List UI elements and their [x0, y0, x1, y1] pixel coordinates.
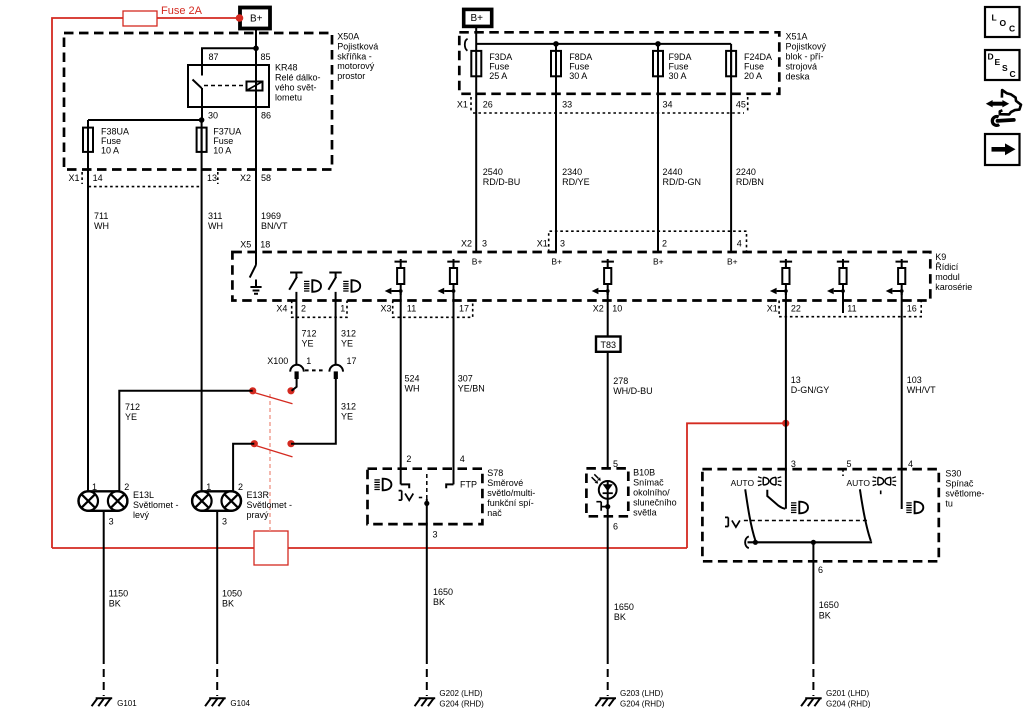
B10B internal contact	[596, 502, 607, 511]
svg-text:X2: X2	[240, 173, 251, 183]
svg-text:712: 712	[302, 329, 317, 339]
S30 common left hook	[745, 536, 749, 548]
svg-text:G204 (RHD): G204 (RHD)	[826, 700, 871, 709]
svg-text:2: 2	[124, 482, 129, 492]
svg-text:YE: YE	[125, 412, 137, 422]
svg-text:F24DA: F24DA	[744, 52, 772, 62]
svg-text:X50A: X50A	[337, 32, 359, 42]
svg-text:4: 4	[460, 454, 465, 464]
svg-text:16: 16	[907, 304, 917, 314]
label 1650 BK right	[819, 600, 839, 621]
wire 278 WH/D-BU K9 X2 pin 10 to B10B pin 5	[607, 292, 609, 469]
svg-text:B+: B+	[551, 257, 562, 267]
connector X3 row of K9	[381, 301, 473, 318]
red switch blade upper	[255, 393, 292, 404]
red box on highlight path	[254, 531, 288, 565]
node red junction on wire 13	[782, 420, 789, 427]
svg-text:strojová: strojová	[786, 62, 818, 72]
svg-text:karosérie: karosérie	[935, 282, 972, 292]
svg-text:skříňka -: skříňka -	[337, 52, 372, 62]
wire 712 YE horizontal to E13L pin 2	[119, 391, 252, 492]
svg-text:Snímač: Snímač	[633, 478, 664, 488]
svg-text:103: 103	[907, 375, 922, 385]
svg-text:BK: BK	[109, 599, 121, 609]
S30 right selector blade	[860, 489, 871, 541]
node junction bus F9DA	[655, 41, 661, 47]
svg-text:2: 2	[238, 482, 243, 492]
label F3DA Fuse 25 A	[489, 52, 512, 81]
svg-text:85: 85	[261, 52, 271, 62]
red switch blade lower	[257, 446, 293, 457]
svg-text:26: 26	[483, 100, 493, 110]
svg-text:světlo/multi-: světlo/multi-	[487, 488, 535, 498]
icon DESC box	[985, 50, 1020, 80]
svg-text:2340: 2340	[562, 167, 582, 177]
K9 sense resistor X2 pin 10	[592, 259, 614, 295]
K9 sense resistor X1 pin 22	[770, 259, 792, 295]
svg-text:X3: X3	[381, 304, 392, 314]
svg-text:AUTO: AUTO	[847, 478, 871, 488]
svg-text:O: O	[1000, 18, 1007, 28]
wire 524 WH K9 X3 pin 11 to S78 pin 2	[400, 292, 402, 485]
switch S78 dashed border	[368, 469, 483, 524]
label 524 WH	[405, 374, 420, 394]
svg-text:20 A: 20 A	[744, 71, 762, 81]
svg-text:světla: světla	[633, 508, 657, 518]
ground G101	[92, 698, 138, 708]
label S30 Spínač světlometu	[945, 469, 984, 509]
svg-text:13: 13	[207, 173, 217, 183]
svg-text:B10B: B10B	[633, 468, 655, 478]
wire 2340 RD/YE to K9 X1 pin 3	[555, 76, 557, 252]
wire X1 pin 11 stub	[842, 292, 844, 314]
label F37UA Fuse 10 A	[213, 127, 241, 156]
svg-text:1: 1	[92, 482, 97, 492]
svg-text:Pojistkový: Pojistkový	[786, 42, 827, 52]
K9 sense resistor X3 pin 17	[438, 259, 460, 295]
ground G104	[205, 698, 250, 708]
svg-text:311: 311	[208, 211, 222, 221]
label 2540 RD/D-BU	[483, 167, 521, 187]
label S78 Směrové světlo/multifunkční spínač	[487, 468, 535, 518]
wire 1050 BK E13R pin 3 to ground	[216, 511, 218, 696]
svg-text:X100: X100	[267, 356, 288, 366]
label 312 YE upper	[341, 329, 356, 349]
S78 common dashed actuator line	[426, 474, 428, 500]
svg-text:Fuse: Fuse	[489, 62, 509, 72]
svg-text:Směrové: Směrové	[487, 478, 523, 488]
svg-text:3: 3	[109, 517, 114, 527]
svg-text:WH: WH	[208, 221, 223, 231]
svg-text:G201 (LHD): G201 (LHD)	[826, 689, 869, 698]
svg-text:X1: X1	[69, 173, 80, 183]
svg-text:YE/BN: YE/BN	[458, 384, 485, 394]
svg-text:motorový: motorový	[337, 61, 375, 71]
svg-text:Fuse: Fuse	[213, 136, 233, 146]
light arrows into photodiode	[592, 474, 601, 483]
svg-text:13: 13	[791, 375, 801, 385]
svg-text:funkční spí-: funkční spí-	[487, 498, 534, 508]
power B+ terminal right	[464, 9, 492, 26]
svg-text:14: 14	[93, 173, 103, 183]
svg-text:4: 4	[908, 459, 913, 469]
svg-text:FTP: FTP	[460, 480, 477, 490]
svg-text:3: 3	[433, 530, 438, 540]
svg-text:87: 87	[209, 52, 219, 62]
wire 103 WH/VT K9 X1 pin 16 to S30 pin 4	[901, 292, 903, 509]
svg-text:YE: YE	[341, 339, 353, 349]
svg-text:BK: BK	[433, 597, 445, 607]
headlamp icon right driver	[343, 280, 360, 292]
node junction below photodiode	[605, 504, 610, 509]
svg-text:2440: 2440	[663, 167, 683, 177]
svg-text:17: 17	[459, 304, 469, 314]
node junction blade left on common	[753, 540, 758, 545]
svg-text:33: 33	[562, 100, 572, 110]
svg-text:E13L: E13L	[133, 490, 154, 500]
svg-text:F38UA: F38UA	[101, 127, 129, 137]
svg-text:F3DA: F3DA	[489, 52, 512, 62]
wire 1650 BK S30 pin 6 to ground	[812, 542, 814, 696]
svg-text:B+: B+	[653, 257, 664, 267]
parking lamp icon left	[758, 477, 782, 486]
label 307 YE/BN	[458, 374, 485, 394]
wire pin 30 to fuses F38UA and F37UA	[88, 107, 202, 120]
wire red highlight bottom horizontal	[52, 547, 687, 549]
svg-text:712: 712	[125, 402, 140, 412]
wire 307 YE/BN K9 X3 pin 17 to S78 pin 4	[453, 292, 455, 485]
wire 1650 BK B10B pin 6 to ground	[607, 499, 609, 696]
relay actuation dashed line	[204, 85, 245, 87]
svg-text:10 A: 10 A	[101, 146, 119, 156]
S30 stalk switch symbol	[725, 517, 740, 527]
S30 mechanical link dashed	[744, 520, 869, 522]
label 2240 RD/BN	[736, 167, 764, 187]
svg-text:30 A: 30 A	[669, 71, 687, 81]
node junction at pin30 feed	[199, 117, 205, 123]
svg-text:deska: deska	[786, 72, 810, 82]
svg-text:2240: 2240	[736, 167, 756, 177]
svg-text:slunečního: slunečního	[633, 498, 677, 508]
svg-text:Spínač: Spínač	[945, 479, 974, 489]
wire 712 YE below X100 to red contact	[292, 379, 297, 391]
svg-text:45: 45	[736, 100, 746, 110]
label 278 WH/D-BU	[613, 376, 653, 396]
svg-text:nač: nač	[487, 508, 502, 518]
label X51A Pojistkový blok	[786, 32, 827, 82]
svg-text:312: 312	[341, 329, 356, 339]
svg-text:30: 30	[208, 111, 218, 121]
svg-text:C: C	[1009, 24, 1015, 34]
svg-text:B+: B+	[727, 257, 738, 267]
svg-text:278: 278	[613, 376, 628, 386]
svg-text:F9DA: F9DA	[669, 52, 692, 62]
wire K9 X4 pin 2 stub	[295, 292, 297, 365]
svg-text:D-GN/GY: D-GN/GY	[791, 385, 830, 395]
svg-text:X1: X1	[457, 100, 468, 110]
lamp E13R headlamp right	[192, 491, 241, 511]
svg-text:G204 (RHD): G204 (RHD)	[439, 700, 484, 709]
fuse F3DA	[471, 51, 481, 76]
wire 2440 RD/D-GN to K9 pin 2	[657, 76, 659, 252]
svg-text:RD/BN: RD/BN	[736, 177, 764, 187]
node junction bus F8DA	[553, 41, 559, 47]
connector X4 row of K9	[276, 301, 347, 318]
svg-text:1650: 1650	[614, 602, 634, 612]
dashed link between X100 terminals	[305, 369, 326, 371]
wire 13 D-GN/GY K9 X1 pin 22 to S30 pin 3	[785, 292, 787, 509]
wire 711 WH fuse F38UA down to E13L pin 1	[87, 120, 89, 491]
wire 2240 RD/BN to K9 pin 4	[730, 76, 732, 252]
node red contact lower left	[251, 440, 258, 447]
wire 311 WH fuse F37UA down to E13R pin 1	[201, 120, 203, 491]
node junction above relay	[253, 46, 259, 52]
connector X1 row of K9	[767, 301, 922, 317]
svg-text:25 A: 25 A	[489, 71, 507, 81]
svg-text:1: 1	[306, 356, 311, 366]
svg-text:D: D	[988, 52, 994, 62]
svg-text:Světlomet -: Světlomet -	[247, 500, 293, 510]
svg-text:modul: modul	[935, 272, 960, 282]
svg-text:B+: B+	[250, 14, 263, 25]
node junction S78 common	[424, 501, 429, 506]
svg-text:3: 3	[791, 459, 796, 469]
svg-text:G204 (RHD): G204 (RHD)	[620, 700, 665, 709]
svg-text:WH: WH	[94, 221, 109, 231]
svg-text:BK: BK	[819, 611, 831, 621]
label 103 WH/VT	[907, 375, 936, 395]
connector X100 pin 1 half circle	[290, 365, 304, 379]
svg-text:X1: X1	[767, 304, 778, 314]
svg-text:312: 312	[341, 402, 356, 412]
svg-text:BK: BK	[222, 599, 234, 609]
svg-text:17: 17	[347, 356, 357, 366]
svg-text:3: 3	[482, 239, 487, 249]
svg-text:X5: X5	[240, 240, 251, 250]
svg-text:AUTO: AUTO	[731, 478, 755, 488]
svg-text:G202 (LHD): G202 (LHD)	[439, 689, 482, 698]
relay contact switch	[193, 65, 203, 107]
svg-text:18: 18	[260, 240, 270, 250]
svg-text:3: 3	[560, 239, 565, 249]
svg-text:B+: B+	[472, 257, 483, 267]
ground G201/G204	[801, 689, 871, 709]
wire 1969 BN/VT relay pin 86 to K9	[255, 107, 257, 252]
wire from B+ to relay pin 85	[255, 29, 257, 66]
label 13 D-GN/GY	[791, 375, 830, 395]
svg-text:T83: T83	[601, 340, 617, 350]
svg-text:524: 524	[405, 374, 420, 384]
svg-text:WH/VT: WH/VT	[907, 385, 936, 395]
svg-text:X1: X1	[537, 239, 548, 249]
label X50A Pojistková skříňka	[337, 32, 378, 82]
svg-text:Fuse: Fuse	[569, 62, 589, 72]
pin 5 stub tick	[842, 469, 844, 476]
fuse F24DA	[726, 44, 736, 76]
svg-text:světlome-: světlome-	[945, 489, 984, 499]
svg-text:RD/D-GN: RD/D-GN	[663, 177, 702, 187]
label E13R Světlomet pravý	[247, 490, 293, 520]
svg-text:F37UA: F37UA	[213, 127, 241, 137]
svg-text:1969: 1969	[261, 211, 281, 221]
svg-text:1150: 1150	[109, 589, 128, 599]
svg-text:BK: BK	[614, 612, 626, 622]
svg-text:Fuse 2A: Fuse 2A	[161, 5, 203, 17]
S30 common bar	[748, 541, 873, 543]
svg-text:K9: K9	[935, 252, 946, 262]
headlamp icon left driver	[304, 280, 321, 292]
svg-text:KR48: KR48	[275, 63, 298, 73]
wire red B+ feed from Fuse 2A, left vertical and top horizontal	[52, 18, 238, 548]
fuse F8DA	[551, 44, 561, 76]
svg-text:X2: X2	[593, 304, 604, 314]
wire S78 common to pin 3	[426, 499, 428, 524]
svg-text:2: 2	[301, 304, 306, 314]
ground G203/G204	[595, 689, 664, 709]
S78 pin 2 contact hook	[401, 484, 410, 488]
power B+ terminal left	[240, 8, 270, 29]
component T83 inline connector	[596, 337, 621, 352]
S30 left selector blade	[745, 489, 755, 540]
svg-text:1650: 1650	[433, 587, 453, 597]
label K9 Řídicí modul karosérie	[935, 252, 972, 292]
svg-text:G104: G104	[230, 699, 250, 708]
wire 2540 RD/D-BU to K9 X2 pin 3	[475, 76, 477, 252]
svg-text:C: C	[1010, 69, 1016, 79]
S78 pin 4 contact hook	[446, 484, 453, 488]
svg-text:vého svět-: vého svět-	[275, 83, 317, 93]
wire E13R pin 2 to red contact	[233, 444, 254, 492]
splice hook at X51A entry	[465, 39, 468, 51]
svg-text:levý: levý	[133, 510, 150, 520]
svg-text:1: 1	[340, 304, 345, 314]
svg-text:2: 2	[662, 239, 667, 249]
svg-text:6: 6	[613, 522, 618, 532]
pin labels E13R	[206, 482, 243, 527]
svg-text:1650: 1650	[819, 600, 839, 610]
K9 sense resistor X1 pin 11	[827, 259, 849, 295]
fuse F38UA	[83, 128, 93, 152]
svg-text:11: 11	[847, 304, 856, 314]
svg-text:WH: WH	[405, 384, 420, 394]
svg-text:lometu: lometu	[275, 93, 302, 103]
label 712 YE upper	[302, 329, 317, 349]
svg-text:Fuse: Fuse	[101, 136, 121, 146]
tick below right icon	[880, 491, 882, 495]
pin labels E13L	[92, 482, 129, 527]
label B10B Snímač okolního/slunečního světla	[633, 468, 677, 518]
svg-text:blok - pří-: blok - pří-	[786, 52, 824, 62]
svg-text:S78: S78	[487, 468, 503, 478]
svg-text:E13R: E13R	[247, 490, 270, 500]
connector X5 pin 18 into K9	[240, 240, 270, 250]
svg-text:Fuse: Fuse	[669, 62, 689, 72]
relay coil KR48	[247, 82, 263, 91]
dash link from stalk to common	[419, 497, 422, 499]
svg-text:tu: tu	[945, 499, 953, 509]
label 1650 BK left	[433, 587, 453, 607]
label 712 YE lower	[125, 402, 140, 422]
relay KR48 box	[188, 65, 269, 107]
label 312 YE lower	[341, 402, 356, 422]
label F9DA Fuse 30 A	[669, 52, 692, 81]
svg-text:S: S	[1002, 63, 1008, 73]
svg-text:6: 6	[818, 565, 823, 575]
svg-text:L: L	[992, 13, 997, 23]
wire relay pin 87 to junction at 85	[202, 48, 256, 65]
svg-text:4: 4	[737, 239, 742, 249]
svg-text:10 A: 10 A	[213, 146, 231, 156]
label 2340 RD/YE	[562, 167, 590, 187]
wire K9 X4 pin 1 stub	[335, 292, 337, 365]
svg-text:F8DA: F8DA	[569, 52, 592, 62]
parking lamp icon right	[872, 477, 896, 486]
fuse F37UA	[197, 128, 207, 152]
node junction pin 6 on common	[811, 540, 816, 545]
svg-text:S30: S30	[945, 469, 961, 479]
svg-text:11: 11	[407, 304, 416, 314]
svg-text:RD/YE: RD/YE	[562, 177, 590, 187]
module K9 body control module dashed border	[232, 252, 930, 301]
label F8DA Fuse 30 A	[569, 52, 592, 81]
label F38UA Fuse 10 A	[101, 127, 129, 156]
svg-text:G101: G101	[117, 699, 137, 708]
svg-text:RD/D-BU: RD/D-BU	[483, 177, 521, 187]
svg-text:YE: YE	[341, 412, 353, 422]
wire B+ into X51A bus	[476, 26, 731, 51]
svg-text:G203 (LHD): G203 (LHD)	[620, 689, 663, 698]
connector X1 row of X51A	[457, 97, 748, 113]
module X51A fuse block dashed border	[459, 32, 779, 94]
switch S30 dashed border	[702, 469, 938, 561]
svg-text:307: 307	[458, 374, 473, 384]
label 2440 RD/D-GN	[663, 167, 702, 187]
svg-text:WH/D-BU: WH/D-BU	[613, 386, 653, 396]
K9 sense resistor X3 pin 11	[385, 259, 407, 295]
module X50A fuse box dashed border	[64, 33, 332, 170]
K9 high-beam driver left	[289, 273, 302, 290]
svg-text:okolního/: okolního/	[633, 488, 670, 498]
label 1969 BN/VT	[261, 211, 288, 231]
svg-text:10: 10	[612, 304, 622, 314]
connector X1 dotted box at K9 top pins 3 2 4	[537, 231, 747, 252]
sensor B10B dashed border	[586, 468, 628, 516]
node red contact lower right	[287, 440, 294, 447]
connector X2 pin 10 labels	[593, 304, 623, 314]
headlamp icon right S30	[906, 502, 923, 514]
label 1150 BK	[109, 589, 128, 609]
svg-text:5: 5	[847, 459, 852, 469]
svg-text:prostor: prostor	[337, 71, 365, 81]
svg-text:B+: B+	[471, 13, 484, 24]
label 1650 BK middle	[614, 602, 634, 622]
svg-text:Světlomet -: Světlomet -	[133, 500, 179, 510]
label 311 WH	[208, 211, 223, 231]
wire red highlight right riser to S30 pin 3	[687, 423, 786, 548]
lamp E13L headlamp left	[79, 491, 128, 511]
node red contact upper right	[287, 387, 294, 394]
headlamp icon left S30	[791, 502, 808, 514]
svg-text:Pojistková: Pojistková	[337, 42, 378, 52]
K9 sense resistor X1 pin 16	[886, 259, 908, 295]
connector X2 row of X50A	[240, 173, 271, 183]
connector labels at K9 top X2 pin 3	[461, 239, 487, 249]
svg-text:Fuse: Fuse	[744, 62, 764, 72]
svg-text:X2: X2	[461, 239, 472, 249]
wire 312 YE below X100 down and left to red contact	[291, 379, 336, 444]
svg-text:Relé dálko-: Relé dálko-	[275, 73, 321, 83]
svg-text:3: 3	[222, 517, 227, 527]
